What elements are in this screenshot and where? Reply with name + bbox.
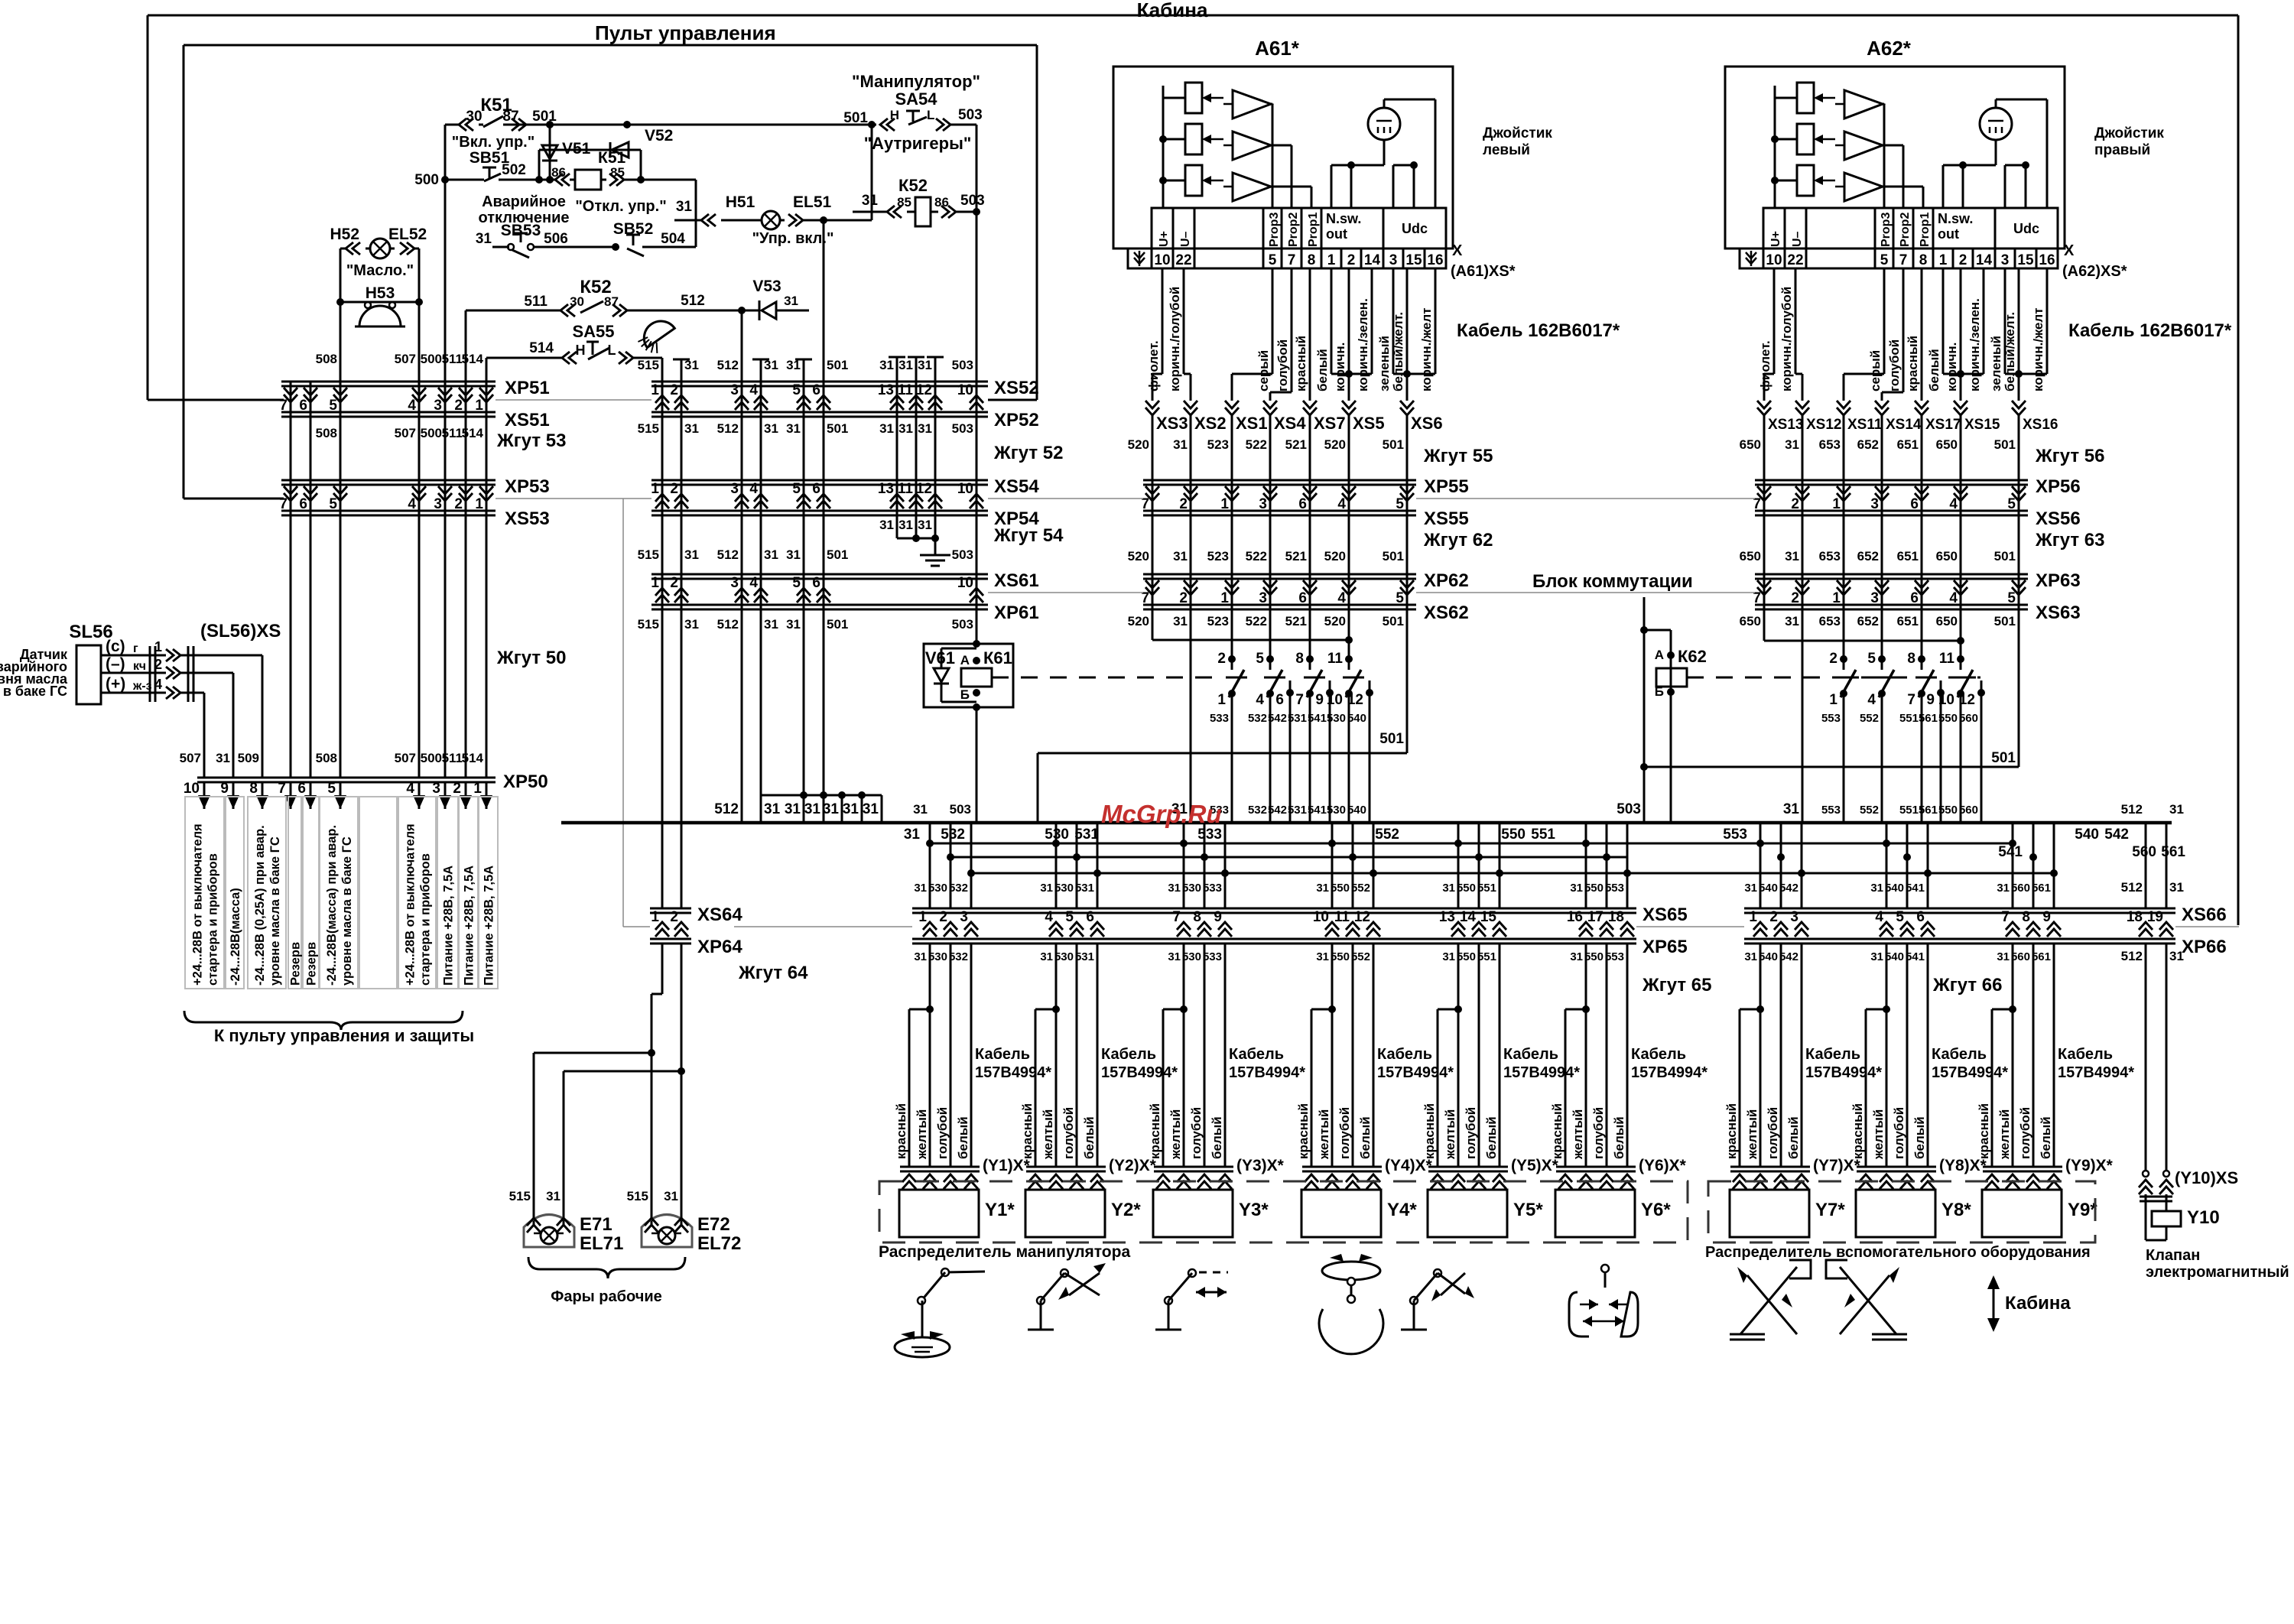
- svg-text:3: 3: [1870, 590, 1879, 606]
- svg-text:11: 11: [1939, 651, 1955, 667]
- svg-text:31: 31: [2169, 802, 2184, 817]
- svg-text:157В4994*: 157В4994*: [1229, 1064, 1305, 1081]
- svg-text:желтый: желтый: [1997, 1109, 2012, 1160]
- svg-text:XS61: XS61: [994, 570, 1039, 591]
- svg-text:4: 4: [408, 496, 416, 512]
- svg-text:508: 508: [316, 352, 337, 366]
- svg-text:Б: Б: [1655, 684, 1664, 699]
- svg-text:561: 561: [2161, 844, 2185, 860]
- svg-text:653: 653: [1819, 614, 1841, 628]
- svg-text:белый: белый: [1612, 1116, 1626, 1159]
- svg-text:4: 4: [1949, 496, 1958, 512]
- svg-text:560: 560: [2011, 950, 2030, 963]
- svg-text:31: 31: [1173, 437, 1188, 452]
- svg-text:4: 4: [1875, 909, 1883, 925]
- svg-text:красный: красный: [1148, 1103, 1162, 1159]
- svg-text:Y7*: Y7*: [1815, 1200, 1845, 1220]
- svg-text:532: 532: [949, 882, 968, 895]
- svg-text:561: 561: [2032, 882, 2051, 895]
- svg-text:красный: красный: [1850, 1103, 1865, 1159]
- svg-text:Пульт управления: Пульт управления: [595, 21, 776, 44]
- svg-text:ХР63: ХР63: [2036, 570, 2081, 591]
- svg-text:14: 14: [1460, 909, 1477, 925]
- svg-text:531: 531: [1288, 712, 1307, 725]
- svg-text:+24...28В от выключателя: +24...28В от выключателя: [191, 823, 205, 986]
- svg-text:Х: Х: [1452, 242, 1463, 259]
- svg-text:503: 503: [958, 107, 983, 123]
- svg-text:10: 10: [1154, 252, 1170, 268]
- svg-text:10: 10: [957, 575, 973, 591]
- svg-text:К52: К52: [898, 176, 928, 195]
- svg-text:501: 501: [1991, 750, 2016, 766]
- svg-text:653: 653: [1819, 549, 1841, 564]
- svg-text:Резерв: Резерв: [289, 942, 303, 986]
- svg-text:15: 15: [2017, 252, 2034, 268]
- svg-text:16: 16: [2039, 252, 2055, 268]
- svg-text:540: 540: [1759, 882, 1778, 895]
- svg-text:10: 10: [1313, 909, 1329, 925]
- svg-text:XS14: XS14: [1886, 417, 1922, 433]
- svg-text:Жгут 63: Жгут 63: [2035, 530, 2104, 551]
- svg-text:XS66: XS66: [2182, 905, 2227, 925]
- svg-text:523: 523: [1207, 614, 1229, 628]
- svg-text:U+: U+: [1158, 231, 1171, 247]
- svg-text:552: 552: [1860, 712, 1879, 725]
- svg-text:3: 3: [434, 496, 442, 512]
- svg-text:1: 1: [918, 909, 927, 925]
- svg-text:514: 514: [462, 751, 484, 765]
- svg-text:85: 85: [610, 165, 625, 180]
- svg-text:Y8*: Y8*: [1941, 1200, 1971, 1220]
- svg-text:31: 31: [898, 358, 913, 372]
- svg-text:31: 31: [764, 801, 781, 817]
- svg-text:V61: V61: [925, 648, 955, 667]
- svg-text:1: 1: [1749, 909, 1757, 925]
- svg-text:530: 530: [928, 950, 947, 963]
- svg-text:532: 532: [941, 827, 965, 843]
- svg-text:"Упр. вкл.": "Упр. вкл.": [752, 230, 834, 247]
- svg-text:(+): (+): [106, 675, 125, 693]
- svg-text:"Откл. упр.": "Откл. упр.": [575, 198, 666, 215]
- svg-text:31: 31: [1785, 437, 1799, 452]
- svg-text:9: 9: [2042, 909, 2051, 925]
- svg-text:561: 561: [1919, 804, 1938, 817]
- svg-text:532: 532: [1248, 712, 1267, 725]
- svg-text:508: 508: [316, 751, 337, 765]
- svg-text:31: 31: [879, 518, 894, 532]
- svg-text:12: 12: [1959, 692, 1975, 708]
- svg-text:514: 514: [462, 426, 484, 440]
- svg-text:(Y9)X*: (Y9)X*: [2065, 1157, 2114, 1174]
- svg-text:31: 31: [1744, 882, 1757, 895]
- svg-text:Н: Н: [890, 108, 899, 122]
- svg-text:Кабина: Кабина: [2005, 1293, 2071, 1314]
- svg-text:электромагнитный: электромагнитный: [2146, 1264, 2289, 1281]
- svg-text:коричн.: коричн.: [1333, 343, 1347, 391]
- svg-text:523: 523: [1207, 549, 1229, 564]
- svg-text:1: 1: [651, 481, 659, 497]
- svg-text:"Масло.": "Масло.": [346, 262, 414, 279]
- svg-text:3: 3: [1259, 496, 1267, 512]
- svg-text:9: 9: [220, 781, 229, 797]
- svg-text:501: 501: [1379, 731, 1404, 747]
- svg-text:красный: красный: [1550, 1103, 1565, 1159]
- svg-text:XS62: XS62: [1424, 603, 1469, 623]
- svg-text:5: 5: [329, 398, 337, 414]
- svg-text:"Манипулятор": "Манипулятор": [852, 72, 980, 91]
- svg-text:31: 31: [804, 801, 821, 817]
- svg-text:11: 11: [1327, 651, 1344, 667]
- svg-text:31: 31: [684, 421, 699, 436]
- svg-text:13: 13: [1439, 909, 1455, 925]
- svg-text:31: 31: [764, 358, 778, 372]
- svg-text:11: 11: [898, 382, 914, 398]
- svg-text:31: 31: [914, 882, 927, 895]
- svg-text:6: 6: [1910, 590, 1919, 606]
- svg-text:501: 501: [1383, 549, 1404, 564]
- svg-text:522: 522: [1246, 437, 1267, 452]
- svg-text:4: 4: [1045, 909, 1053, 925]
- svg-text:16: 16: [1427, 252, 1443, 268]
- svg-text:503: 503: [952, 547, 973, 562]
- svg-text:652: 652: [1857, 549, 1879, 564]
- svg-text:желтый: желтый: [1443, 1109, 1457, 1160]
- svg-text:650: 650: [1936, 614, 1958, 628]
- svg-text:515: 515: [509, 1189, 531, 1203]
- svg-text:650: 650: [1740, 549, 1761, 564]
- svg-text:31: 31: [684, 617, 699, 632]
- svg-text:зеленый: зеленый: [1989, 336, 2003, 391]
- svg-text:507: 507: [180, 751, 201, 765]
- svg-text:Udc: Udc: [1402, 221, 1428, 236]
- svg-text:1: 1: [1939, 252, 1948, 268]
- svg-text:3: 3: [730, 575, 739, 591]
- svg-text:2: 2: [1179, 496, 1188, 512]
- svg-text:4: 4: [1867, 692, 1876, 708]
- svg-text:651: 651: [1897, 549, 1919, 564]
- svg-text:31: 31: [898, 421, 913, 436]
- svg-text:5: 5: [792, 481, 801, 497]
- svg-text:18: 18: [1608, 909, 1624, 925]
- svg-text:7: 7: [1295, 692, 1304, 708]
- svg-text:515: 515: [638, 617, 659, 632]
- svg-text:552: 552: [1860, 804, 1879, 817]
- svg-text:552: 552: [1375, 827, 1399, 843]
- svg-text:14: 14: [1364, 252, 1381, 268]
- svg-text:красный: красный: [1294, 336, 1308, 391]
- svg-text:Жгут 62: Жгут 62: [1423, 530, 1493, 551]
- svg-text:31: 31: [1785, 614, 1799, 628]
- svg-text:31: 31: [1442, 950, 1455, 963]
- svg-text:157В4994*: 157В4994*: [1377, 1064, 1454, 1081]
- svg-text:31: 31: [1870, 950, 1883, 963]
- svg-text:30: 30: [570, 294, 584, 309]
- svg-text:2: 2: [1217, 651, 1226, 667]
- svg-text:Y9*: Y9*: [2068, 1200, 2097, 1220]
- svg-text:6: 6: [299, 398, 307, 414]
- svg-text:157В4994*: 157В4994*: [1805, 1064, 1882, 1081]
- svg-text:Клапан: Клапан: [2146, 1247, 2200, 1264]
- svg-text:31: 31: [1168, 882, 1181, 895]
- svg-text:530: 530: [1045, 827, 1069, 843]
- svg-text:31: 31: [1785, 549, 1799, 564]
- svg-text:5: 5: [1867, 651, 1876, 667]
- svg-text:2: 2: [1179, 590, 1188, 606]
- svg-text:ХР64: ХР64: [697, 937, 742, 957]
- svg-text:желтый: желтый: [1317, 1109, 1331, 1160]
- svg-text:Н53: Н53: [366, 284, 395, 302]
- svg-text:503: 503: [1617, 801, 1641, 817]
- svg-text:XS65: XS65: [1643, 905, 1688, 925]
- svg-text:в баке ГС: в баке ГС: [3, 684, 67, 699]
- svg-text:10: 10: [957, 382, 973, 398]
- svg-text:2: 2: [670, 575, 678, 591]
- svg-text:1: 1: [475, 496, 483, 512]
- svg-text:4: 4: [1949, 590, 1958, 606]
- svg-text:3: 3: [960, 909, 968, 925]
- svg-text:6: 6: [1910, 496, 1919, 512]
- svg-text:10: 10: [1766, 252, 1782, 268]
- svg-text:4: 4: [749, 575, 758, 591]
- svg-text:Кабель: Кабель: [1101, 1046, 1156, 1063]
- svg-text:533: 533: [1210, 712, 1229, 725]
- svg-text:515: 515: [638, 421, 659, 436]
- svg-text:507: 507: [395, 426, 416, 440]
- svg-text:голубой: голубой: [1275, 339, 1290, 391]
- svg-text:Udc: Udc: [2013, 221, 2039, 236]
- svg-text:Х: Х: [2064, 242, 2075, 259]
- svg-text:XS3: XS3: [1156, 414, 1188, 433]
- svg-text:E71: E71: [580, 1214, 612, 1235]
- svg-text:5: 5: [2007, 496, 2016, 512]
- svg-text:509: 509: [238, 751, 259, 765]
- svg-text:540: 540: [1759, 950, 1778, 963]
- svg-text:560: 560: [1959, 804, 1978, 817]
- svg-text:8: 8: [1295, 651, 1304, 667]
- svg-text:белый: белый: [1210, 1116, 1224, 1159]
- svg-text:31: 31: [1744, 950, 1757, 963]
- svg-text:541: 541: [1906, 882, 1925, 895]
- svg-text:512: 512: [714, 801, 739, 817]
- svg-text:U–: U–: [1791, 231, 1804, 247]
- svg-text:515: 515: [638, 547, 659, 562]
- svg-text:А: А: [1655, 648, 1664, 662]
- svg-text:ХР51: ХР51: [505, 378, 550, 398]
- svg-text:511: 511: [524, 294, 548, 310]
- svg-text:540: 540: [2075, 827, 2099, 843]
- svg-text:6: 6: [1275, 692, 1284, 708]
- svg-text:Prop2: Prop2: [1899, 213, 1912, 247]
- svg-text:533: 533: [1203, 950, 1222, 963]
- svg-text:514: 514: [462, 352, 484, 366]
- svg-text:542: 542: [1779, 882, 1798, 895]
- svg-text:503: 503: [960, 193, 985, 209]
- svg-text:Кабель: Кабель: [1377, 1046, 1432, 1063]
- svg-text:31: 31: [823, 801, 840, 817]
- svg-text:Жгут 55: Жгут 55: [1423, 446, 1493, 466]
- svg-text:551: 551: [1477, 950, 1496, 963]
- svg-text:голубой: голубой: [1887, 339, 1902, 391]
- svg-text:ХР66: ХР66: [2182, 937, 2227, 957]
- svg-text:9: 9: [1315, 692, 1324, 708]
- svg-text:SA55: SA55: [572, 322, 614, 341]
- svg-text:31: 31: [1168, 950, 1181, 963]
- svg-text:540: 540: [1885, 950, 1904, 963]
- svg-text:коричн.: коричн.: [1945, 343, 1959, 391]
- svg-text:(Y3)X*: (Y3)X*: [1236, 1157, 1285, 1174]
- svg-text:501: 501: [827, 358, 848, 372]
- svg-text:8: 8: [1907, 651, 1915, 667]
- svg-text:желтый: желтый: [1168, 1109, 1183, 1160]
- svg-text:503: 503: [952, 421, 973, 436]
- svg-text:1: 1: [651, 575, 659, 591]
- svg-text:7: 7: [1172, 909, 1181, 925]
- svg-text:Джойстик: Джойстик: [1483, 125, 1552, 141]
- svg-text:552: 552: [1351, 950, 1370, 963]
- svg-text:коричн./голубой: коричн./голубой: [1168, 287, 1182, 391]
- svg-text:531: 531: [1075, 882, 1094, 895]
- svg-text:Б: Б: [960, 687, 970, 702]
- svg-text:4: 4: [749, 481, 758, 497]
- svg-text:V52: V52: [645, 127, 673, 145]
- svg-text:521: 521: [1285, 437, 1307, 452]
- svg-text:XS64: XS64: [697, 905, 742, 925]
- svg-text:XS15: XS15: [1964, 417, 2000, 433]
- svg-text:кч: кч: [133, 660, 146, 673]
- svg-text:31: 31: [879, 421, 894, 436]
- svg-text:31: 31: [546, 1189, 561, 1203]
- svg-text:(–): (–): [106, 655, 125, 673]
- svg-text:5: 5: [792, 382, 801, 398]
- svg-text:3: 3: [730, 481, 739, 497]
- svg-text:542: 542: [1779, 950, 1798, 963]
- svg-text:553: 553: [1605, 950, 1624, 963]
- svg-text:5: 5: [327, 781, 336, 797]
- svg-text:Жгут 64: Жгут 64: [738, 963, 808, 983]
- svg-text:30: 30: [466, 109, 482, 125]
- svg-text:506: 506: [544, 231, 568, 247]
- svg-text:4: 4: [1337, 590, 1346, 606]
- svg-text:красный: красный: [1977, 1103, 1991, 1159]
- svg-text:Кабель: Кабель: [1805, 1046, 1860, 1063]
- svg-text:550: 550: [1331, 882, 1350, 895]
- svg-text:31: 31: [918, 421, 932, 436]
- svg-text:(с): (с): [106, 638, 125, 655]
- svg-text:Жгут 66: Жгут 66: [1932, 975, 2002, 996]
- svg-text:2: 2: [454, 496, 463, 512]
- svg-text:3: 3: [432, 781, 440, 797]
- svg-text:Кабель: Кабель: [1503, 1046, 1558, 1063]
- svg-text:белый: белый: [1484, 1116, 1499, 1159]
- svg-text:U–: U–: [1179, 231, 1192, 247]
- svg-text:8: 8: [1919, 252, 1928, 268]
- svg-text:Prop1: Prop1: [1919, 213, 1932, 247]
- svg-text:5: 5: [1396, 496, 1404, 512]
- svg-text:522: 522: [1246, 549, 1267, 564]
- svg-text:3: 3: [1259, 590, 1267, 606]
- svg-text:XS54: XS54: [994, 476, 1039, 497]
- svg-text:2: 2: [670, 382, 678, 398]
- svg-text:520: 520: [1324, 549, 1346, 564]
- svg-text:31: 31: [764, 421, 778, 436]
- svg-text:515: 515: [638, 358, 659, 372]
- svg-text:31: 31: [898, 518, 913, 532]
- svg-text:11: 11: [1334, 909, 1350, 925]
- svg-text:голубой: голубой: [1189, 1107, 1204, 1159]
- svg-text:out: out: [1938, 226, 1959, 242]
- svg-text:12: 12: [1354, 909, 1370, 925]
- svg-text:532: 532: [1248, 804, 1267, 817]
- svg-text:Жгут 50: Жгут 50: [496, 648, 566, 668]
- svg-text:652: 652: [1857, 437, 1879, 452]
- svg-text:522: 522: [1246, 614, 1267, 628]
- svg-text:31: 31: [1040, 950, 1053, 963]
- svg-text:541: 541: [1308, 804, 1327, 817]
- svg-text:551: 551: [1899, 712, 1919, 725]
- svg-text:5: 5: [792, 575, 801, 591]
- svg-text:31: 31: [843, 801, 859, 817]
- svg-text:550: 550: [1938, 804, 1958, 817]
- svg-text:551: 551: [1531, 827, 1555, 843]
- svg-text:10: 10: [184, 781, 200, 797]
- svg-text:Y1*: Y1*: [985, 1200, 1015, 1220]
- svg-text:серый: серый: [1868, 350, 1883, 391]
- svg-text:3: 3: [1389, 252, 1398, 268]
- svg-text:-24...28В(масса): -24...28В(масса): [229, 888, 242, 986]
- svg-text:XS7: XS7: [1314, 414, 1346, 433]
- svg-text:зеленый: зеленый: [1377, 336, 1392, 391]
- svg-text:31: 31: [1997, 882, 2010, 895]
- svg-text:31: 31: [216, 751, 230, 765]
- svg-text:-24...28В(масса) при авар.: -24...28В(масса) при авар.: [325, 825, 339, 986]
- svg-text:Кабель: Кабель: [975, 1046, 1030, 1063]
- svg-text:542: 542: [2104, 827, 2129, 843]
- svg-text:7: 7: [278, 781, 286, 797]
- svg-text:501: 501: [532, 109, 557, 125]
- svg-text:XS52: XS52: [994, 378, 1039, 398]
- svg-text:651: 651: [1897, 437, 1919, 452]
- svg-text:Джойстик: Джойстик: [2094, 125, 2164, 141]
- svg-text:3: 3: [434, 398, 442, 414]
- svg-text:31: 31: [684, 547, 699, 562]
- svg-text:4: 4: [1256, 692, 1264, 708]
- svg-text:561: 561: [2032, 950, 2051, 963]
- svg-text:левый: левый: [1483, 142, 1530, 158]
- svg-text:560: 560: [1959, 712, 1978, 725]
- svg-text:6: 6: [1916, 909, 1925, 925]
- svg-text:7: 7: [1288, 252, 1296, 268]
- svg-text:31: 31: [1316, 882, 1329, 895]
- svg-text:501: 501: [827, 421, 848, 436]
- svg-text:503: 503: [952, 617, 973, 632]
- svg-text:2: 2: [1791, 496, 1799, 512]
- svg-text:1: 1: [1832, 590, 1841, 606]
- svg-text:533: 533: [1197, 827, 1222, 843]
- svg-text:500: 500: [421, 352, 442, 366]
- svg-text:501: 501: [843, 110, 868, 126]
- svg-text:XS56: XS56: [2036, 508, 2081, 529]
- svg-text:9: 9: [1214, 909, 1222, 925]
- svg-text:SA54: SA54: [895, 89, 937, 109]
- svg-text:ХР53: ХР53: [505, 476, 550, 497]
- svg-text:553: 553: [1723, 827, 1747, 843]
- svg-text:550: 550: [1584, 950, 1604, 963]
- svg-text:фиолет.: фиолет.: [1146, 340, 1161, 391]
- svg-text:U+: U+: [1769, 231, 1782, 247]
- svg-text:553: 553: [1821, 804, 1841, 817]
- svg-text:голубой: голубой: [1337, 1107, 1352, 1159]
- svg-text:Y6*: Y6*: [1641, 1200, 1671, 1220]
